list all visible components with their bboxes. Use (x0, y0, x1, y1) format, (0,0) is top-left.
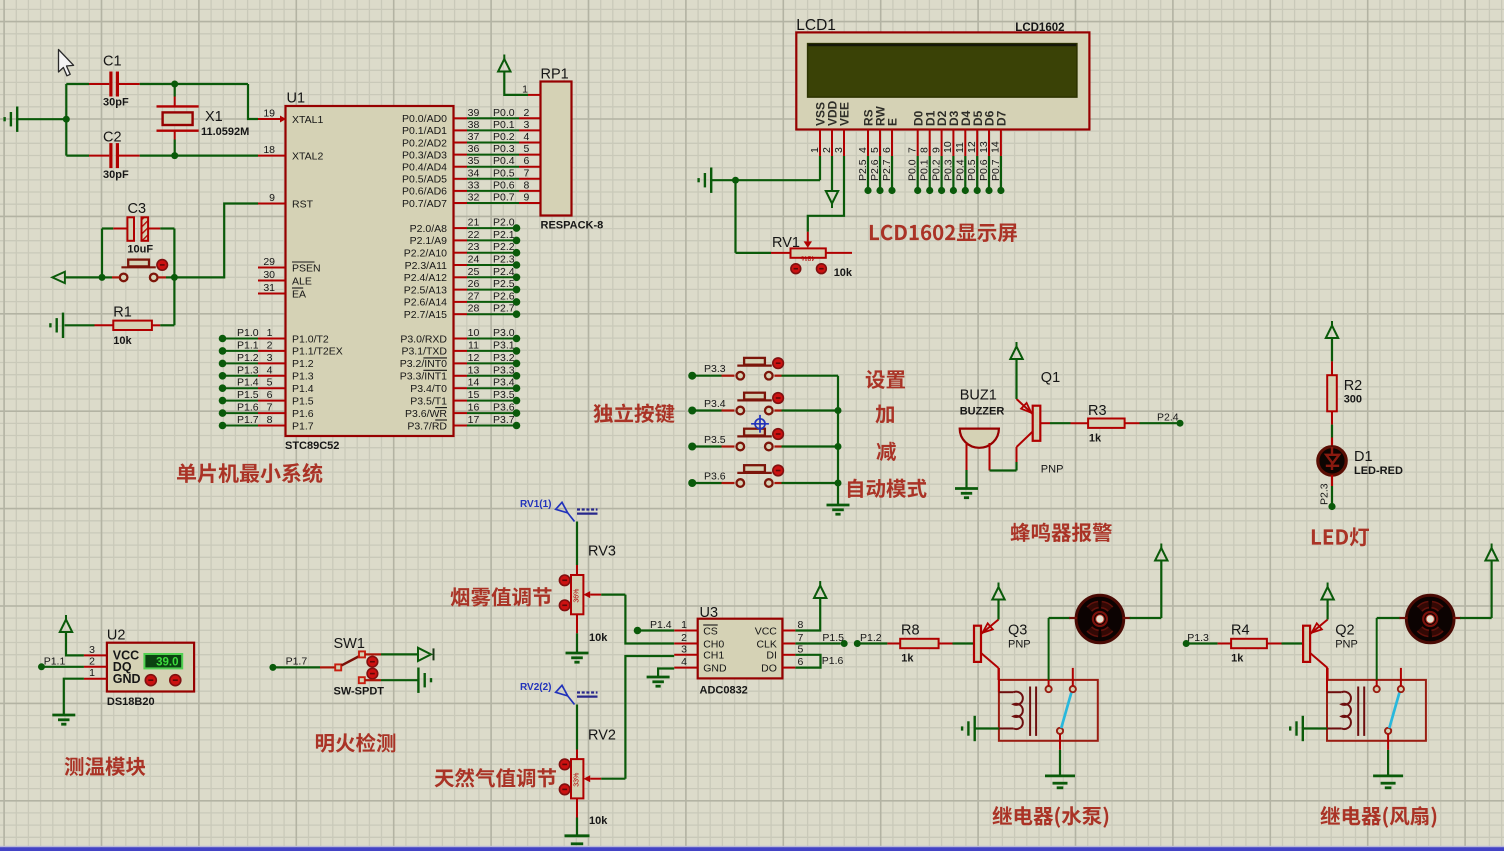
svg-text:D7: D7 (995, 110, 1009, 126)
svg-text:DS18B20: DS18B20 (107, 696, 155, 708)
svg-text:P2.3/A11: P2.3/A11 (405, 260, 448, 272)
svg-text:P3.2/INT0: P3.2/INT0 (400, 358, 447, 370)
svg-text:PSEN: PSEN (292, 262, 321, 274)
svg-text:23: 23 (468, 241, 480, 253)
svg-text:E: E (886, 118, 900, 126)
svg-text:1: 1 (89, 667, 95, 679)
svg-text:11.0592M: 11.0592M (201, 126, 249, 138)
svg-text:GND: GND (113, 672, 141, 686)
svg-text:28: 28 (468, 303, 480, 315)
svg-text:P3.6/WR: P3.6/WR (405, 408, 447, 420)
svg-text:P0.2: P0.2 (493, 131, 515, 143)
svg-text:17: 17 (468, 414, 480, 426)
svg-text:30pF: 30pF (103, 169, 129, 181)
svg-text:SW1: SW1 (334, 636, 365, 652)
svg-text:P0.6: P0.6 (493, 179, 515, 191)
svg-text:31: 31 (263, 282, 275, 294)
svg-text:7: 7 (524, 167, 530, 179)
svg-text:1k: 1k (1231, 653, 1244, 665)
svg-text:SW-SPDT: SW-SPDT (334, 686, 385, 698)
svg-text:8: 8 (267, 414, 273, 426)
svg-text:P1.6: P1.6 (237, 402, 259, 414)
svg-text:CS: CS (703, 625, 718, 637)
svg-text:PNP: PNP (1008, 639, 1031, 651)
svg-text:P0.3: P0.3 (942, 159, 954, 181)
svg-text:P0.6: P0.6 (978, 159, 990, 181)
svg-text:10k: 10k (589, 632, 608, 644)
svg-text:P0.0: P0.0 (907, 159, 919, 181)
svg-text:29: 29 (263, 256, 275, 268)
svg-text:1k: 1k (1089, 433, 1102, 445)
svg-text:P3.7: P3.7 (493, 414, 515, 426)
svg-text:CH1: CH1 (703, 650, 724, 662)
svg-text:GND: GND (703, 662, 727, 674)
svg-text:16: 16 (468, 402, 480, 414)
svg-text:4: 4 (267, 364, 273, 376)
svg-text:EA: EA (292, 288, 306, 300)
svg-text:Q2: Q2 (1335, 623, 1354, 639)
svg-text:P3.2: P3.2 (493, 352, 515, 364)
svg-text:P0.5/AD5: P0.5/AD5 (402, 174, 447, 186)
svg-text:10k: 10k (589, 815, 608, 827)
svg-text:5: 5 (869, 147, 881, 153)
svg-text:P2.4: P2.4 (1157, 412, 1179, 424)
svg-text:ALE: ALE (292, 275, 312, 287)
svg-text:2: 2 (524, 107, 530, 119)
svg-text:8: 8 (919, 147, 931, 153)
svg-text:RV1(1): RV1(1) (520, 499, 552, 510)
svg-text:ADC0832: ADC0832 (700, 685, 748, 697)
svg-text:6: 6 (881, 147, 893, 153)
svg-text:1: 1 (809, 147, 821, 153)
svg-text:P0.1: P0.1 (919, 159, 931, 181)
svg-text:P0.3/AD3: P0.3/AD3 (402, 149, 447, 161)
svg-text:7: 7 (798, 632, 804, 644)
svg-text:P2.7/A15: P2.7/A15 (404, 309, 447, 321)
svg-text:14: 14 (990, 141, 1002, 153)
svg-text:12: 12 (468, 352, 480, 364)
svg-text:9: 9 (930, 147, 942, 153)
svg-text:R4: R4 (1231, 623, 1250, 639)
svg-text:P1.6: P1.6 (292, 408, 314, 420)
svg-text:37: 37 (468, 131, 480, 143)
svg-text:RV2(2): RV2(2) (520, 682, 552, 693)
svg-text:P2.5: P2.5 (857, 159, 869, 181)
svg-text:P0.7: P0.7 (990, 159, 1002, 181)
svg-text:P2.5: P2.5 (493, 278, 515, 290)
svg-text:5: 5 (524, 143, 530, 155)
svg-text:P2.2: P2.2 (493, 241, 515, 253)
svg-text:U3: U3 (700, 605, 719, 621)
svg-text:X1: X1 (205, 109, 223, 125)
svg-text:P1.0: P1.0 (237, 327, 259, 339)
svg-text:32: 32 (468, 192, 480, 204)
svg-text:RST: RST (292, 198, 314, 210)
svg-text:35: 35 (468, 155, 480, 167)
svg-text:P1.7: P1.7 (292, 420, 314, 432)
svg-text:CLK: CLK (756, 638, 776, 650)
svg-text:P2.3: P2.3 (1319, 483, 1331, 505)
svg-text:P3.3: P3.3 (493, 364, 515, 376)
svg-text:5: 5 (267, 377, 273, 389)
svg-text:LCD1602: LCD1602 (1015, 22, 1064, 34)
svg-text:U1: U1 (287, 91, 306, 107)
svg-text:8: 8 (798, 619, 804, 631)
svg-text:30pF: 30pF (103, 97, 129, 109)
svg-text:RV3: RV3 (588, 544, 616, 560)
svg-text:U2: U2 (107, 628, 126, 644)
svg-text:R2: R2 (1344, 378, 1363, 394)
svg-text:R3: R3 (1088, 403, 1107, 419)
svg-text:18: 18 (263, 144, 275, 156)
svg-text:RP1: RP1 (541, 67, 569, 83)
svg-text:BUZ1: BUZ1 (960, 388, 997, 404)
svg-text:36%: 36% (574, 589, 581, 603)
svg-text:P3.5: P3.5 (704, 434, 726, 446)
svg-text:P3.0/RXD: P3.0/RXD (400, 333, 447, 345)
svg-text:P1.5: P1.5 (237, 389, 259, 401)
svg-text:P1.4: P1.4 (237, 377, 259, 389)
svg-text:P1.2: P1.2 (292, 358, 314, 370)
svg-text:14: 14 (468, 377, 480, 389)
svg-text:P0.3: P0.3 (493, 143, 515, 155)
svg-text:P2.0/A8: P2.0/A8 (410, 223, 448, 235)
svg-text:P0.1/AD1: P0.1/AD1 (402, 125, 447, 137)
svg-text:P0.7: P0.7 (493, 192, 515, 204)
svg-text:9: 9 (524, 192, 530, 204)
svg-text:CH0: CH0 (703, 638, 724, 650)
svg-text:P1.4: P1.4 (650, 619, 672, 631)
svg-text:3: 3 (267, 352, 273, 364)
svg-text:P0.5: P0.5 (493, 167, 515, 179)
svg-text:34: 34 (468, 167, 480, 179)
svg-text:10: 10 (468, 327, 480, 339)
svg-text:P0.1: P0.1 (493, 119, 515, 131)
svg-text:22: 22 (468, 229, 480, 241)
svg-text:13: 13 (978, 141, 990, 153)
svg-text:8: 8 (524, 179, 530, 191)
svg-text:P3.0: P3.0 (493, 327, 515, 339)
svg-text:Q3: Q3 (1008, 623, 1027, 639)
svg-text:P1.5: P1.5 (822, 632, 844, 644)
svg-text:27: 27 (468, 290, 480, 302)
svg-text:P3.4/T0: P3.4/T0 (410, 383, 447, 395)
svg-text:3: 3 (524, 119, 530, 131)
svg-text:9: 9 (269, 192, 275, 204)
svg-text:P1.1/T2EX: P1.1/T2EX (292, 346, 343, 358)
svg-text:P2.2/A10: P2.2/A10 (404, 248, 447, 260)
svg-text:33: 33 (468, 179, 480, 191)
svg-text:P0.6/AD6: P0.6/AD6 (402, 186, 447, 198)
svg-text:P2.5/A13: P2.5/A13 (404, 284, 447, 296)
svg-text:25: 25 (468, 266, 480, 278)
svg-text:P2.1/A9: P2.1/A9 (410, 235, 448, 247)
svg-text:P3.7/RD: P3.7/RD (407, 420, 447, 432)
svg-text:STC89C52: STC89C52 (285, 440, 339, 452)
svg-text:P2.4/A12: P2.4/A12 (404, 272, 447, 284)
svg-text:2: 2 (821, 147, 833, 153)
svg-text:P2.0: P2.0 (493, 217, 515, 229)
svg-text:11: 11 (954, 142, 966, 153)
svg-text:P2.6/A14: P2.6/A14 (404, 297, 447, 309)
svg-text:RV2: RV2 (588, 728, 616, 744)
svg-text:RESPACK-8: RESPACK-8 (541, 220, 604, 232)
svg-text:P1.1: P1.1 (44, 655, 66, 667)
svg-text:7: 7 (907, 147, 919, 153)
svg-text:P2.7: P2.7 (493, 303, 515, 315)
svg-text:C1: C1 (103, 54, 122, 70)
svg-text:P2.7: P2.7 (881, 159, 893, 181)
svg-text:P3.5/T1: P3.5/T1 (410, 395, 447, 407)
svg-text:P0.2: P0.2 (931, 159, 943, 181)
svg-text:10: 10 (942, 141, 954, 153)
svg-text:XTAL1: XTAL1 (292, 114, 323, 126)
svg-text:1k: 1k (901, 653, 914, 665)
svg-text:5: 5 (798, 643, 804, 655)
svg-text:38: 38 (468, 119, 480, 131)
svg-text:10uF: 10uF (127, 244, 153, 256)
svg-text:P3.6: P3.6 (493, 402, 515, 414)
svg-text:39: 39 (468, 107, 480, 119)
svg-text:39.0: 39.0 (156, 656, 178, 668)
svg-text:P0.0/AD0: P0.0/AD0 (402, 113, 447, 125)
svg-text:P0.4/AD4: P0.4/AD4 (402, 162, 447, 174)
svg-text:36: 36 (468, 143, 480, 155)
svg-text:P0.2/AD2: P0.2/AD2 (402, 137, 447, 149)
svg-text:30: 30 (263, 269, 275, 281)
svg-text:P0.0: P0.0 (493, 107, 515, 119)
svg-text:P1.2: P1.2 (237, 352, 259, 364)
svg-text:P3.3: P3.3 (704, 363, 726, 375)
svg-text:3: 3 (833, 147, 845, 153)
svg-text:LED-RED: LED-RED (1354, 465, 1403, 477)
svg-text:1: 1 (681, 619, 687, 631)
svg-text:R1: R1 (113, 305, 132, 321)
svg-text:P3.1: P3.1 (493, 339, 515, 351)
svg-text:C3: C3 (128, 201, 147, 217)
svg-text:P3.4: P3.4 (493, 377, 515, 389)
svg-text:P0.4: P0.4 (954, 159, 966, 181)
svg-text:P3.5: P3.5 (493, 389, 515, 401)
svg-text:PNP: PNP (1335, 639, 1358, 651)
svg-text:P1.7: P1.7 (237, 414, 259, 426)
svg-text:Q1: Q1 (1041, 370, 1060, 386)
svg-text:P1.5: P1.5 (292, 395, 314, 407)
svg-text:33%: 33% (574, 773, 581, 787)
svg-text:P1.3: P1.3 (237, 364, 259, 376)
svg-text:PNP: PNP (1041, 464, 1064, 476)
svg-text:4: 4 (524, 131, 530, 143)
svg-text:19: 19 (263, 108, 275, 120)
svg-text:P2.3: P2.3 (493, 254, 515, 266)
svg-text:6: 6 (267, 389, 273, 401)
svg-text:24: 24 (468, 254, 480, 266)
svg-text:R8: R8 (901, 623, 920, 639)
svg-text:P0.5: P0.5 (966, 159, 978, 181)
svg-text:P1.2: P1.2 (860, 632, 882, 644)
svg-text:P1.0/T2: P1.0/T2 (292, 333, 329, 345)
svg-text:P0.4: P0.4 (493, 155, 515, 167)
svg-text:48%: 48% (801, 254, 815, 261)
svg-text:P1.3: P1.3 (292, 371, 314, 383)
svg-text:12: 12 (966, 141, 978, 153)
svg-text:BUZZER: BUZZER (960, 406, 1005, 418)
svg-text:P3.3/INT1: P3.3/INT1 (400, 371, 447, 383)
svg-text:2: 2 (681, 632, 687, 644)
svg-text:P1.3: P1.3 (1187, 632, 1209, 644)
svg-text:VEE: VEE (838, 102, 852, 126)
svg-text:3: 3 (89, 644, 95, 656)
svg-text:2: 2 (267, 339, 273, 351)
svg-text:3: 3 (681, 643, 687, 655)
svg-text:P3.1/TXD: P3.1/TXD (401, 346, 447, 358)
svg-text:6: 6 (524, 155, 530, 167)
svg-text:4: 4 (857, 147, 869, 153)
svg-text:VCC: VCC (755, 625, 778, 637)
svg-text:P1.4: P1.4 (292, 383, 314, 395)
svg-text:1: 1 (267, 327, 273, 339)
svg-text:10k: 10k (834, 267, 853, 279)
svg-text:15: 15 (468, 389, 480, 401)
svg-text:13: 13 (468, 364, 480, 376)
svg-text:11: 11 (468, 339, 479, 351)
svg-text:10k: 10k (113, 335, 132, 347)
svg-text:P2.6: P2.6 (493, 290, 515, 302)
svg-text:4: 4 (681, 656, 687, 668)
svg-text:XTAL2: XTAL2 (292, 150, 323, 162)
svg-text:26: 26 (468, 278, 480, 290)
svg-text:1: 1 (522, 83, 528, 95)
svg-text:P3.6: P3.6 (704, 471, 726, 483)
svg-text:P0.7/AD7: P0.7/AD7 (402, 198, 447, 210)
svg-text:P1.6: P1.6 (822, 655, 844, 667)
svg-text:P2.1: P2.1 (493, 229, 515, 241)
svg-text:7: 7 (267, 402, 273, 414)
svg-text:6: 6 (798, 656, 804, 668)
svg-text:P2.6: P2.6 (869, 159, 881, 181)
svg-text:P1.7: P1.7 (286, 655, 308, 667)
svg-text:D1: D1 (1354, 449, 1373, 465)
svg-text:DO: DO (761, 662, 777, 674)
svg-text:21: 21 (468, 217, 480, 229)
svg-text:P3.4: P3.4 (704, 398, 726, 410)
svg-text:2: 2 (89, 655, 95, 667)
svg-text:P2.4: P2.4 (493, 266, 515, 278)
svg-text:300: 300 (1344, 394, 1362, 406)
svg-text:P1.1: P1.1 (237, 339, 259, 351)
svg-text:DI: DI (766, 650, 777, 662)
